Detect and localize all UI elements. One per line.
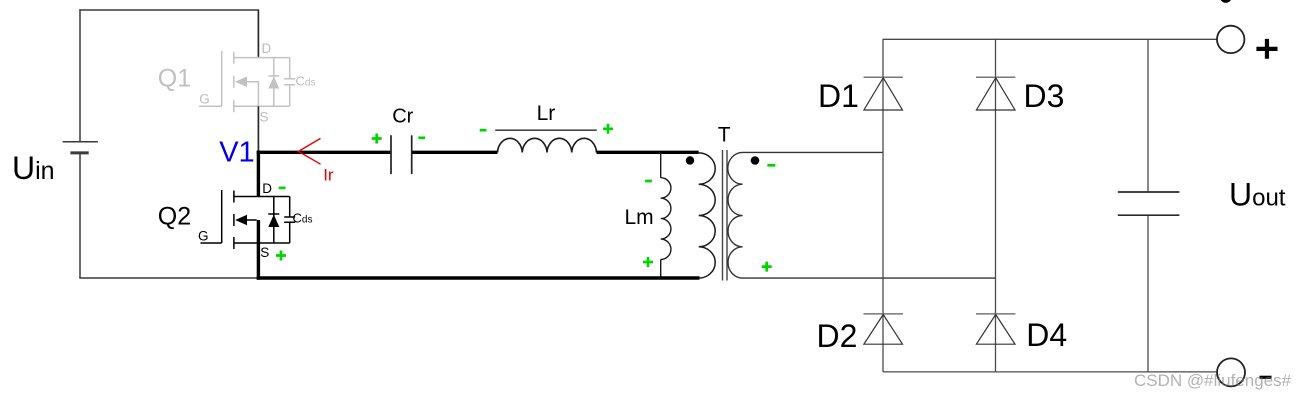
- wire bottom left: [79, 277, 259, 279]
- svg-text:CSDN @#liufenges#: CSDN @#liufenges#: [1134, 371, 1292, 390]
- battery Uin short plate: [70, 151, 88, 154]
- terminal plus circle: [1217, 26, 1244, 53]
- green plus Q2 source: [276, 251, 286, 261]
- transformer secondary winding: [728, 152, 996, 278]
- green minus Lr left: [480, 129, 487, 132]
- svg-text:D: D: [262, 41, 272, 56]
- wire bottom thick: [257, 276, 700, 279]
- svg-text:S: S: [260, 110, 269, 125]
- Q1 arrow: [235, 77, 247, 88]
- node V1 thick wire to Cr: [257, 151, 392, 154]
- Q2 arrow: [235, 215, 247, 226]
- wire bridge top: [883, 38, 1217, 40]
- wire V1 to Q2 drain: [257, 151, 260, 197]
- current arrow Ir: [299, 138, 321, 164]
- diode D4: [976, 313, 1015, 315]
- plus sign output: [1256, 39, 1277, 59]
- capacitor Cout: [1147, 39, 1149, 372]
- wire bridge left rail: [882, 39, 884, 372]
- Q2 body diode triangle: [268, 215, 279, 228]
- svg-text:Q2: Q2: [158, 202, 191, 230]
- svg-text:Lr: Lr: [537, 102, 556, 125]
- inductor Lr coils: [498, 138, 597, 152]
- transformer T primary winding: [699, 153, 716, 278]
- diode D2: [864, 313, 903, 315]
- transistor Q1 (gray): [199, 51, 295, 112]
- inductor Lm branch: [660, 152, 662, 278]
- wire left upper: [79, 9, 81, 142]
- capacitor Cr plates: [391, 135, 412, 174]
- inductor Lr line: [495, 129, 597, 131]
- svg-text:Cr: Cr: [392, 105, 413, 127]
- green minus Cr right: [418, 136, 425, 139]
- svg-text:T: T: [718, 124, 731, 147]
- transformer primary dot: [686, 156, 694, 164]
- wire top left loop: [79, 9, 259, 11]
- wire Q2 source down: [257, 220, 260, 280]
- transformer secondary dot: [751, 156, 760, 165]
- wire Lr to transformer: [597, 151, 699, 154]
- transistor Q2 (black): [201, 190, 296, 249]
- svg-text:D1: D1: [818, 78, 859, 114]
- Q1 pin labels: [199, 41, 315, 125]
- wire bridge bottom: [883, 371, 1217, 373]
- svg-text:Ir: Ir: [323, 166, 334, 185]
- terminal minus circle: [1217, 358, 1245, 386]
- svg-text:S: S: [260, 245, 269, 260]
- green plus Cr left: [372, 134, 382, 144]
- svg-text:V1: V1: [219, 137, 254, 169]
- diode D3: [976, 76, 1015, 78]
- svg-text:D2: D2: [817, 318, 858, 354]
- svg-text:Cds: Cds: [296, 74, 316, 89]
- green minus Q2 drain: [279, 187, 286, 190]
- green plus Lr right: [603, 124, 613, 134]
- battery Uin long plate: [63, 141, 98, 143]
- green minus secondary top: [767, 164, 775, 167]
- green plus Lm bottom: [643, 257, 653, 267]
- green plus secondary bottom: [762, 262, 772, 272]
- svg-text:Cds: Cds: [293, 211, 313, 226]
- partial dot top edge: [1220, 0, 1232, 3]
- inductor Lm coils: [661, 178, 671, 260]
- diode D1: [864, 76, 903, 78]
- wire Q1 drain from top: [257, 10, 259, 58]
- svg-text:Q1: Q1: [158, 65, 191, 93]
- transformer core: [723, 150, 728, 281]
- svg-text:Lm: Lm: [625, 206, 654, 229]
- svg-text:D: D: [262, 181, 272, 196]
- Q2 pin labels: [198, 181, 312, 260]
- svg-text:G: G: [198, 229, 209, 244]
- wire Q1 source to V1: [257, 106, 259, 152]
- svg-text:Uin: Uin: [12, 150, 55, 186]
- svg-text:D4: D4: [1026, 317, 1067, 353]
- svg-text:Uout: Uout: [1229, 176, 1286, 212]
- minus sign output: [1260, 376, 1272, 379]
- svg-text:G: G: [199, 92, 210, 107]
- green minus Lm top: [645, 180, 652, 183]
- wire Cr to Lr: [413, 151, 498, 154]
- wire bridge right rail: [995, 39, 997, 372]
- wire left lower: [79, 153, 81, 278]
- svg-text:D3: D3: [1024, 78, 1065, 114]
- Q1 body diode triangle: [268, 76, 279, 88]
